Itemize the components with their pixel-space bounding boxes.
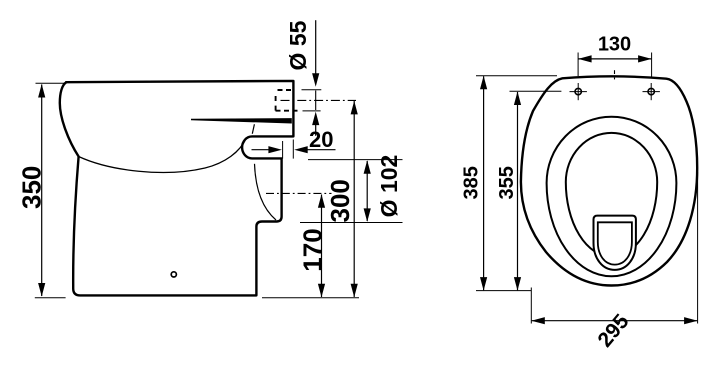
dim 170 [318, 194, 325, 297]
dim 130 [578, 55, 652, 62]
svg-text:130: 130 [598, 33, 631, 55]
outlet centerline dash-dot (170 top extension) [266, 192, 332, 194]
295 left extension [530, 288, 532, 324]
seat outline (top view egg) [521, 76, 697, 285]
dim 130 extension left [577, 53, 579, 77]
dim Ø102 [364, 160, 371, 222]
ground extension line left [35, 297, 66, 299]
top extension line for 350 [36, 82, 65, 84]
dim 350 line [38, 84, 45, 297]
dim 20 arrows [252, 146, 336, 153]
dim 20 extension lines [282, 141, 284, 159]
center mark dot [614, 78, 616, 80]
Ø102 extension line bottom [300, 222, 403, 224]
svg-text:170: 170 [297, 228, 327, 271]
Ø102 extension line top [308, 159, 403, 161]
seat opening ellipse [566, 133, 657, 257]
svg-text:350: 350 [17, 166, 47, 209]
295 right extension [697, 172, 699, 324]
hidden outlet pipe: bottom dashed [276, 110, 301, 112]
svg-text:Ø 55: Ø 55 [285, 20, 311, 70]
Ø55 tick bottom [303, 110, 321, 112]
dim Ø55 arrows [312, 20, 319, 136]
hidden outlet pipe: left dashed [275, 96, 277, 111]
svg-text:295: 295 [593, 310, 633, 352]
dim 300 [351, 101, 358, 297]
svg-text:300: 300 [325, 179, 355, 222]
rear interior curve [255, 164, 277, 220]
seat wedge (side view, filled) [191, 118, 292, 123]
chute cover outer [594, 216, 636, 270]
dim 295 [531, 317, 697, 324]
385 top extension [476, 75, 557, 77]
355 top extension [510, 90, 562, 92]
pipe centerline dash-dot [281, 99, 357, 101]
dim 385 [480, 76, 487, 291]
svg-text:355: 355 [496, 166, 518, 199]
dim 355 [514, 92, 521, 291]
drain hole circle [171, 272, 176, 277]
center mark dash [614, 70, 616, 74]
chute cover inner [598, 222, 632, 264]
toilet body outline (side view) [60, 81, 294, 296]
hinge screw left [570, 83, 587, 100]
hidden outlet pipe: top dashed [278, 89, 294, 91]
hinge screw right [643, 83, 660, 100]
svg-text:20: 20 [309, 127, 333, 152]
svg-text:385: 385 [460, 166, 482, 199]
bottom extension (385/355) [476, 290, 532, 292]
dim 130 extension right [651, 53, 653, 79]
svg-text:Ø 102: Ø 102 [376, 155, 402, 218]
Ø55 tick top [302, 89, 322, 91]
seat hinge tick [252, 124, 254, 134]
bowl silhouette arc [79, 138, 247, 173]
seat ring ellipse [547, 117, 677, 277]
ground extension line right [262, 297, 359, 299]
